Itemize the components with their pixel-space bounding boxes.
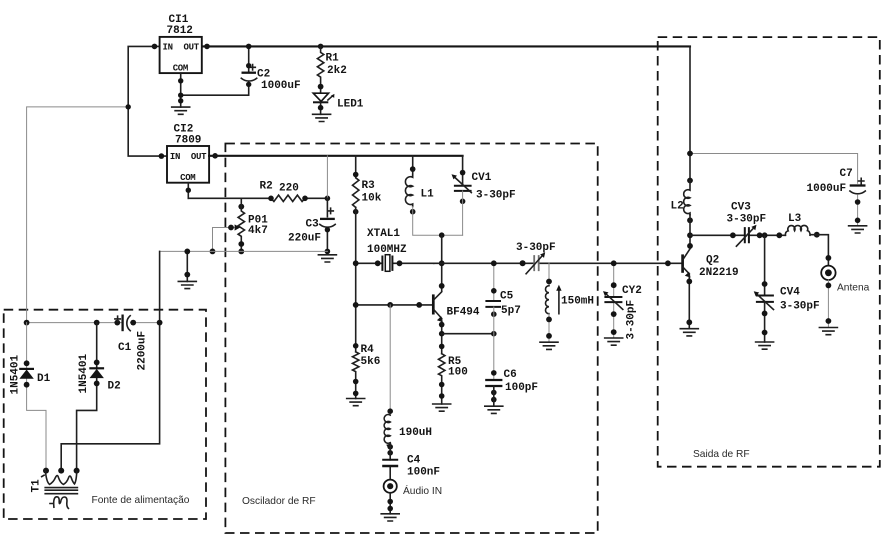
svg-text:1000uF: 1000uF	[807, 183, 847, 195]
ground	[178, 281, 196, 288]
svg-text:Oscilador de RF: Oscilador de RF	[242, 496, 316, 507]
inductor L3	[785, 213, 819, 238]
svg-text:CV4: CV4	[780, 286, 800, 298]
svg-text:C4: C4	[407, 455, 421, 467]
wire common rail	[160, 250, 328, 252]
resistor R1 2k2	[317, 44, 346, 93]
svg-text:Antena: Antena	[837, 282, 870, 293]
capacitor C5 5p7	[485, 260, 520, 333]
svg-text:R2: R2	[260, 180, 273, 192]
ground	[540, 342, 558, 349]
svg-text:150mH: 150mH	[561, 295, 594, 307]
wire CI1 COM to ground	[180, 73, 182, 107]
svg-text:3-30pF: 3-30pF	[476, 190, 516, 202]
wire CI2 COM down	[187, 183, 189, 199]
wire tank junction down to collector	[441, 235, 443, 291]
node CV3 to CV4 junction	[757, 232, 763, 238]
svg-text:3-30pF: 3-30pF	[780, 300, 820, 312]
ground	[819, 328, 837, 335]
resistor R2 220	[260, 180, 308, 201]
inductor 150mH	[546, 263, 595, 342]
ground	[433, 404, 451, 411]
ground	[318, 255, 336, 262]
capacitor C2 1000uF	[241, 44, 300, 96]
svg-text:10k: 10k	[362, 192, 382, 204]
wire raw DC rail in supply	[27, 322, 160, 324]
capacitor C7 1000uF	[807, 168, 866, 226]
variable capacitor CY2 3-30pF	[603, 260, 642, 339]
ground	[849, 226, 867, 233]
svg-text:Fonte de alimentação: Fonte de alimentação	[92, 495, 190, 506]
ground	[680, 329, 698, 336]
svg-text:C2: C2	[257, 69, 270, 81]
svg-text:Áudio IN: Áudio IN	[403, 484, 442, 497]
svg-text:T1: T1	[30, 479, 42, 493]
svg-text:2N2219: 2N2219	[699, 267, 739, 279]
svg-text:2200uF: 2200uF	[137, 331, 149, 371]
svg-text:D1: D1	[37, 373, 51, 385]
svg-text:CY2: CY2	[622, 285, 642, 297]
svg-text:220: 220	[279, 183, 299, 195]
wire L1 bottom to tank junction	[413, 207, 463, 236]
trimmer capacitor 3-30pF	[516, 242, 556, 274]
capacitor C3 220uF	[288, 198, 335, 254]
potentiometer P01 4k7	[210, 198, 269, 254]
svg-text:220uF: 220uF	[288, 233, 321, 245]
svg-text:L2: L2	[671, 200, 684, 212]
op-amp U1 (regulator CI1 7812 box)	[160, 14, 202, 74]
wire 9V rail to C3 top	[326, 156, 328, 199]
variable capacitor CV1 3-30pF	[452, 156, 516, 235]
svg-text:Q2: Q2	[706, 254, 719, 266]
svg-text:LED1: LED1	[337, 99, 364, 111]
ground	[313, 114, 331, 121]
ground	[756, 342, 774, 349]
svg-text:R3: R3	[362, 180, 376, 192]
wire L2 to Q2 collector	[689, 215, 691, 247]
svg-text:IN: IN	[170, 152, 180, 162]
wire Q2 emitter to ground	[688, 275, 690, 329]
ground	[347, 399, 365, 406]
svg-text:CI2: CI2	[174, 124, 194, 136]
svg-text:3-30pF: 3-30pF	[626, 300, 638, 340]
wire oscillator output row	[434, 262, 683, 264]
ground	[381, 514, 399, 521]
svg-text:100MHZ: 100MHZ	[367, 244, 407, 256]
svg-text:OUT: OUT	[184, 42, 200, 52]
wire common rail ground stub	[186, 251, 188, 281]
inductor L1	[405, 156, 434, 215]
svg-text:7809: 7809	[175, 135, 201, 147]
svg-text:CI1: CI1	[169, 14, 189, 26]
svg-text:C5: C5	[500, 290, 514, 302]
wire collector output row	[690, 234, 785, 236]
svg-text:1N5401: 1N5401	[9, 354, 21, 394]
connector Audio IN	[384, 480, 442, 514]
wire L3 to antenna	[811, 235, 829, 266]
node raw DC branch	[126, 104, 131, 109]
node CI1 COM junctions	[178, 78, 183, 83]
inductor 190uH (audio choke)	[384, 305, 432, 456]
svg-text:COM: COM	[173, 64, 188, 74]
dashed box Saida de RF	[658, 37, 880, 467]
svg-text:OUT: OUT	[191, 152, 207, 162]
wire 12V rail drop to L2	[689, 46, 691, 180]
svg-text:C7: C7	[840, 168, 853, 180]
connector Antena	[821, 266, 869, 328]
svg-text:7812: 7812	[167, 25, 193, 37]
wire common down to transformer center tap	[61, 251, 159, 470]
wire raw DC from supply to regulators	[27, 107, 129, 323]
variable capacitor CV3 3-30pF	[727, 201, 767, 246]
svg-text:1000uF: 1000uF	[261, 80, 301, 92]
svg-text:BF494: BF494	[447, 306, 480, 318]
capacitor C6 100pF	[485, 334, 538, 407]
diode D2 1N5401	[77, 323, 121, 471]
wire COM row to R2 and C3	[188, 197, 327, 199]
svg-text:5k6: 5k6	[361, 356, 381, 368]
svg-text:1N5401: 1N5401	[78, 353, 90, 393]
capacitor C4 100nF	[382, 443, 440, 480]
node CI1 pins	[152, 44, 158, 50]
svg-text:CV1: CV1	[472, 172, 492, 184]
svg-text:Saida de RF: Saida de RF	[693, 449, 750, 460]
svg-text:COM: COM	[180, 173, 195, 183]
wire C2 return to COM	[181, 94, 249, 96]
svg-text:C3: C3	[306, 219, 320, 231]
svg-text:L1: L1	[421, 189, 435, 201]
wire emitter to C5/C6 node	[442, 333, 494, 335]
resistor R4 5k6	[353, 343, 381, 399]
wire emitter column	[441, 320, 443, 354]
svg-text:C6: C6	[504, 369, 517, 381]
svg-text:D2: D2	[108, 381, 121, 393]
wire 9V rail	[209, 155, 463, 157]
resistor R5 100	[439, 354, 468, 404]
diode D1 1N5401	[9, 323, 50, 471]
capacitor C1 2200uF	[114, 315, 148, 371]
svg-text:3-30pF: 3-30pF	[727, 214, 767, 226]
resistor R3 10k	[353, 156, 382, 215]
svg-text:R1: R1	[326, 53, 340, 65]
svg-text:C1: C1	[118, 342, 132, 354]
svg-text:100pF: 100pF	[505, 382, 538, 394]
LED LED1	[313, 84, 364, 115]
inductor L2	[671, 151, 693, 224]
transformer T1	[30, 468, 79, 509]
ground	[172, 107, 190, 114]
dashed box Fonte de alimentacao	[4, 310, 206, 519]
node CI2 pins	[159, 153, 165, 159]
transistor Q2 2N2219	[665, 249, 739, 279]
svg-text:100nF: 100nF	[407, 467, 440, 479]
ground	[605, 338, 623, 345]
variable capacitor CV4 3-30pF	[754, 235, 820, 342]
crystal XTAL1 100MHZ	[353, 228, 445, 271]
svg-text:CV3: CV3	[731, 201, 751, 213]
svg-text:R4: R4	[361, 344, 375, 356]
svg-text:3-30pF: 3-30pF	[516, 242, 556, 254]
transistor Q1 BF494	[353, 283, 480, 322]
op-amp U2 (regulator CI2 7809 box)	[167, 124, 209, 184]
svg-text:100: 100	[448, 367, 468, 379]
svg-text:190uH: 190uH	[399, 427, 432, 439]
svg-text:5p7: 5p7	[501, 305, 521, 317]
wire CI1 IN feed	[128, 46, 167, 156]
wire 12V rail from CI1 OUT to output stage	[202, 45, 690, 47]
ground	[485, 406, 503, 413]
dashed box Oscilador de RF	[225, 144, 597, 534]
wire R3 column down through bias node	[355, 207, 357, 351]
svg-text:IN: IN	[163, 42, 173, 52]
svg-text:2k2: 2k2	[327, 65, 347, 77]
wire 12V to C7 branch	[690, 154, 858, 184]
svg-text:4k7: 4k7	[248, 225, 268, 237]
svg-text:L3: L3	[788, 213, 802, 225]
node tank junction	[439, 232, 445, 238]
svg-text:XTAL1: XTAL1	[367, 228, 400, 240]
